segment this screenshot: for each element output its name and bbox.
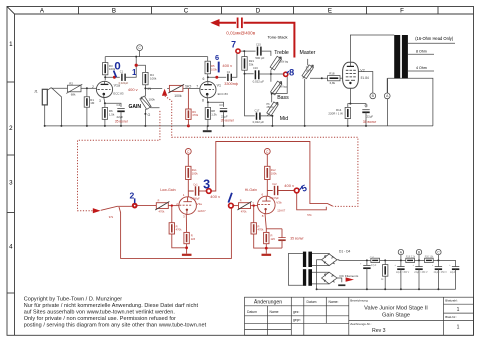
- svg-text:25k lin: 25k lin: [267, 106, 275, 109]
- capacitor red 0,01uF: [237, 18, 243, 29]
- svg-text:V3a: V3a: [197, 202, 203, 206]
- svg-text:3: 3: [9, 180, 13, 187]
- wire R2 to V1a grid: [81, 87, 96, 89]
- svg-text:3: 3: [183, 214, 185, 218]
- svg-text:1M: 1M: [90, 101, 95, 105]
- wire C2 to node 7: [231, 54, 237, 78]
- capacitor Cx2: [275, 186, 278, 195]
- wire node2 to grid resistor: [137, 205, 156, 207]
- svg-text:Only for private / non commerc: Only for private / non commercial use. P…: [24, 316, 176, 322]
- wires transformer to bridges: [312, 253, 329, 284]
- svg-text:Blattzahl:: Blattzahl:: [445, 299, 458, 303]
- svg-text:2: 2: [9, 125, 13, 132]
- svg-text:G: G: [148, 113, 151, 117]
- arrow at SlO tap: [162, 89, 167, 96]
- wire C15 to treble: [261, 51, 271, 56]
- bleeder resistor: [383, 260, 388, 289]
- wire tone stack left chain: [245, 74, 255, 116]
- speaker jack box: [388, 78, 433, 126]
- filter capacitor C14: [452, 260, 459, 289]
- svg-text:6: 6: [262, 193, 264, 197]
- wire pot to bus: [144, 109, 146, 126]
- triode V1b: [200, 82, 216, 98]
- ground V3a: [182, 254, 192, 256]
- svg-text:Bass: Bass: [277, 95, 289, 101]
- wire master wiper to R18: [310, 77, 328, 79]
- svg-text:R: R: [240, 200, 242, 203]
- svg-text:0,022 µF: 0,022 µF: [253, 79, 265, 83]
- svg-text:R20 10k: R20 10k: [425, 256, 434, 258]
- svg-text:22µF / 450 V: 22µF / 450 V: [434, 272, 448, 274]
- wire Cx1 to node 3: [199, 190, 207, 192]
- psu labels: [339, 249, 440, 278]
- svg-text:A: A: [400, 250, 403, 254]
- svg-text:1k5: 1k5: [271, 237, 276, 241]
- wire bridge1 plus to C10 node: [337, 259, 371, 262]
- wire jack sleeve to bus: [44, 105, 46, 126]
- svg-text:gepr:: gepr:: [293, 318, 301, 322]
- wire R18 to V2 grid: [340, 77, 343, 79]
- svg-text:8: 8: [262, 214, 264, 218]
- svg-text:posting / serving this diagram: posting / serving this diagram from any …: [24, 323, 207, 329]
- node C supply: [137, 45, 143, 57]
- svg-text:0,01мк@400в: 0,01мк@400в: [226, 30, 255, 35]
- svg-text:22µF: 22µF: [450, 272, 456, 274]
- B+ rail wire: [105, 56, 208, 58]
- svg-text:1: 1: [183, 193, 185, 197]
- wire C1 to node 1: [125, 57, 145, 78]
- svg-text:R9: R9: [192, 110, 196, 114]
- output transformer core: [394, 35, 408, 78]
- wire V3b cathode: [265, 214, 266, 233]
- wire R3 leads / plate node: [105, 57, 120, 81]
- svg-text:D: D: [256, 7, 261, 14]
- svg-text:Rx2: Rx2: [271, 168, 276, 172]
- potentiometer P8 Bass: [270, 74, 281, 102]
- svg-text:Gain Stage: Gain Stage: [382, 312, 410, 318]
- svg-text:R18: R18: [329, 71, 335, 75]
- svg-text:(16-Ohm Head Only): (16-Ohm Head Only): [415, 36, 454, 41]
- dc filament arrow: [346, 277, 354, 281]
- svg-text:Cx2: Cx2: [272, 183, 277, 186]
- red junction dots: [113, 64, 268, 250]
- svg-text:35 вольт: 35 вольт: [363, 120, 377, 124]
- resistor R5: [205, 61, 210, 74]
- svg-text:6,8k: 6,8k: [330, 81, 336, 85]
- svg-text:1: 1: [9, 41, 13, 48]
- svg-text:2: 2: [92, 85, 94, 89]
- svg-text:B: B: [418, 250, 421, 254]
- red text labels: [109, 63, 377, 241]
- wire C17 to mid bottom and bus: [260, 116, 273, 126]
- svg-text:Low-Gain: Low-Gain: [160, 188, 175, 192]
- svg-text:R: R: [158, 200, 160, 203]
- node ring 8: [284, 72, 288, 76]
- capacitor C16: [255, 70, 258, 79]
- svg-text:Zeichnungs-Nr.:: Zeichnungs-Nr.:: [350, 322, 371, 326]
- red dotted path SlO to hi-gain out: [165, 96, 358, 206]
- resistor R8: [205, 108, 210, 120]
- svg-text:J1: J1: [34, 89, 38, 93]
- wire V2 cathode: [348, 88, 366, 107]
- svg-text:35 вольт: 35 вольт: [115, 119, 129, 123]
- resistor Rg1 470k slanted: [155, 202, 169, 211]
- svg-text:+: +: [360, 264, 362, 266]
- grid column letters: [40, 7, 404, 14]
- svg-text:100k: 100k: [211, 67, 217, 71]
- svg-text:1,3k: 1,3k: [211, 112, 217, 116]
- svg-text:47µF: 47µF: [371, 265, 377, 267]
- capacitor Ck2 bypass: [266, 229, 285, 248]
- svg-text:470k: 470k: [192, 113, 198, 117]
- svg-text:Tone-Stack: Tone-Stack: [268, 34, 288, 39]
- svg-text:C15: C15: [256, 43, 261, 47]
- capacitor C2: [228, 74, 231, 81]
- svg-text:+: +: [395, 265, 397, 267]
- svg-text:C17: C17: [255, 109, 260, 113]
- svg-text:1M log: 1M log: [279, 85, 287, 88]
- svg-text:68k: 68k: [71, 93, 76, 97]
- svg-text:Blatt-Nr.:: Blatt-Nr.:: [445, 315, 457, 319]
- svg-text:2: 2: [130, 191, 135, 201]
- svg-text:7: 7: [196, 84, 198, 88]
- svg-text:400 v: 400 v: [128, 87, 138, 92]
- filter capacitor C12: [415, 260, 422, 289]
- red dotted path gain wiper to switch: [78, 111, 160, 211]
- wire IN node to mod resistor: [145, 87, 169, 89]
- svg-text:gez:: gez:: [293, 310, 299, 314]
- triode V3b: [258, 196, 276, 214]
- psu ground bus: [317, 288, 456, 290]
- wire Rk2 to ground: [265, 244, 267, 254]
- wire node7 to tone stack: [239, 50, 255, 52]
- node ring 2: [133, 204, 137, 208]
- wire node4 to grid resistor: [233, 205, 238, 207]
- svg-text:C16: C16: [253, 66, 258, 70]
- resistor Rk1: [184, 232, 189, 243]
- svg-text:Datum: Datum: [247, 310, 257, 314]
- svg-text:400 v: 400 v: [284, 183, 294, 188]
- resistor R21: [242, 57, 247, 71]
- wire V1b cathode: [207, 98, 223, 108]
- svg-text:12AX7: 12AX7: [277, 208, 286, 212]
- capacitor C10: [363, 260, 370, 289]
- wire node5 output: [297, 193, 327, 210]
- svg-text:C: C: [187, 150, 190, 154]
- ground filament: [338, 284, 345, 286]
- svg-text:100k: 100k: [150, 77, 157, 81]
- svg-text:EL 84: EL 84: [361, 76, 369, 80]
- svg-text:C: C: [184, 7, 189, 14]
- capacitor C17: [257, 113, 260, 120]
- svg-text:auf Sites ausserhalb von www.t: auf Sites ausserhalb von www.tube-town.n…: [24, 310, 176, 316]
- svg-text:Cx1: Cx1: [193, 183, 198, 186]
- wire jack shunt contact: [51, 88, 61, 126]
- potentiometer GAIN: [140, 96, 160, 109]
- svg-text:ECC 83: ECC 83: [218, 92, 229, 96]
- power transformer primary wires: [288, 254, 303, 286]
- svg-text:1k: 1k: [381, 279, 384, 281]
- svg-text:Valve Junior Mod Stage II: Valve Junior Mod Stage II: [364, 306, 428, 312]
- svg-text:220R / 1 W: 220R / 1 W: [328, 112, 343, 116]
- svg-text:0,047µF: 0,047µF: [270, 197, 280, 200]
- svg-text:Master: Master: [300, 50, 316, 56]
- wire 400v feed stage2: [211, 142, 332, 207]
- capacitor Cx1: [196, 186, 199, 195]
- resistor R19: [371, 258, 380, 262]
- svg-text:470k: 470k: [258, 228, 264, 232]
- svg-text:1,5k: 1,5k: [109, 112, 115, 116]
- svg-text:Datum: Datum: [307, 300, 317, 304]
- svg-text:0,068µF: 0,068µF: [191, 197, 201, 200]
- svg-text:250k log: 250k log: [279, 61, 289, 64]
- wire V1a cathode: [104, 98, 121, 108]
- pentode V2: [343, 62, 359, 88]
- svg-text:100k: 100k: [149, 98, 156, 102]
- svg-text:Treble: Treble: [274, 50, 289, 56]
- svg-text:C4: C4: [117, 103, 121, 107]
- svg-text:Rev 3: Rev 3: [372, 328, 386, 334]
- resistor Rgl1 470k: [169, 206, 187, 248]
- wire R14 to bus: [347, 119, 349, 126]
- svg-text:Copyright by Tube-Town / D. Mu: Copyright by Tube-Town / D. Munzinger: [24, 297, 123, 303]
- svg-text:B: B: [112, 7, 116, 14]
- svg-text:V1: V1: [217, 83, 221, 87]
- svg-text:C10: C10: [370, 258, 375, 260]
- resistor R1: [84, 97, 89, 107]
- svg-text:Änderungen: Änderungen: [254, 299, 282, 306]
- node ring 7: [236, 49, 240, 53]
- svg-text:22µF: 22µF: [117, 115, 124, 119]
- svg-text:4: 4: [9, 244, 13, 251]
- svg-text:400 v: 400 v: [210, 194, 220, 199]
- svg-text:C: C: [437, 250, 440, 254]
- blue ink marks: [114, 39, 308, 200]
- svg-text:Hi-Gain: Hi-Gain: [245, 188, 257, 192]
- psu junction dots: [316, 259, 440, 290]
- svg-text:8: 8: [202, 98, 204, 102]
- svg-text:DC Filaments: DC Filaments: [340, 274, 359, 278]
- svg-text:F: F: [400, 7, 404, 14]
- svg-text:D1 - D4: D1 - D4: [339, 249, 351, 253]
- node ring 5: [294, 188, 299, 193]
- capacitor C1: [122, 74, 125, 81]
- thick red jumper wire top: [214, 23, 295, 58]
- svg-text:B: B: [372, 94, 375, 98]
- wire R8 to bus: [207, 119, 209, 126]
- svg-text:0,022µF: 0,022µF: [119, 81, 129, 85]
- svg-text:Mid: Mid: [280, 116, 288, 122]
- wire R6 to bus: [104, 119, 106, 126]
- rectifier B+ bridge D1-D4: [322, 254, 338, 266]
- svg-text:8 Ohm: 8 Ohm: [416, 49, 427, 53]
- wire Cx2 to node 5: [278, 190, 294, 192]
- svg-text:V2: V2: [360, 69, 364, 73]
- svg-text:4 Ohm: 4 Ohm: [416, 66, 427, 70]
- resistor Rg2 470k slanted: [237, 202, 251, 211]
- wire switch lever: [101, 206, 133, 210]
- switch arrow: [93, 208, 101, 213]
- svg-text:1M A: 1M A: [306, 69, 312, 72]
- svg-text:3300пф: 3300пф: [224, 82, 238, 86]
- wire C3 to bus: [223, 111, 225, 126]
- svg-text:22µF / 450 V: 22µF / 450 V: [396, 272, 410, 274]
- wire C5 to bus: [365, 112, 367, 126]
- resistor Rx2: [265, 166, 270, 179]
- resistor R14: [345, 107, 350, 118]
- svg-text:12AX7: 12AX7: [198, 209, 207, 213]
- filter capacitor C13: [435, 260, 442, 289]
- node A psu: [398, 249, 403, 260]
- svg-text:22µF / 450 V: 22µF / 450 V: [414, 272, 428, 274]
- wire Rk1 to ground: [186, 244, 188, 254]
- resistor Rx1: [186, 166, 191, 179]
- svg-text:Bezeichnung: Bezeichnung: [350, 299, 368, 303]
- resistor R18: [328, 76, 340, 81]
- svg-text:470k: 470k: [159, 210, 165, 214]
- svg-text:57k: 57k: [307, 213, 312, 217]
- svg-text:7: 7: [231, 39, 236, 49]
- component labels stage 1: [34, 43, 389, 125]
- svg-text:A: A: [40, 7, 45, 14]
- filter capacitor C11: [397, 260, 404, 289]
- resistor R20: [406, 258, 415, 262]
- svg-text:500 pF: 500 pF: [255, 56, 264, 60]
- copyright text block: [24, 297, 207, 329]
- resistor R6: [102, 108, 107, 120]
- wire to V3b grid: [251, 205, 258, 207]
- wire V2 plate to transformer: [350, 35, 394, 62]
- node C psu: [436, 249, 441, 260]
- capacitor C3: [220, 109, 227, 112]
- potentiometer P5 Treble: [270, 56, 281, 70]
- svg-text:Nur für private / nicht kommer: Nur für private / nicht kommerzielle Anw…: [24, 303, 199, 309]
- wire R21 leads: [244, 51, 246, 74]
- svg-text:400 v: 400 v: [222, 63, 232, 68]
- svg-text:+: +: [432, 265, 434, 267]
- wire filament dc out: [337, 278, 342, 282]
- input jack J1: [42, 88, 51, 105]
- resistor R4: [143, 72, 148, 84]
- svg-text:6: 6: [215, 53, 219, 62]
- svg-text:35 вольт: 35 вольт: [290, 237, 304, 241]
- capacitor C4: [117, 109, 124, 112]
- svg-text:3: 3: [203, 177, 210, 191]
- ground V1: [203, 126, 212, 132]
- wire Rx1 to V3a plate: [188, 180, 193, 197]
- resistor R22: [425, 258, 434, 262]
- triode V1a: [96, 81, 112, 97]
- resistor R3: [103, 63, 108, 75]
- wire R5 / V1b plate node: [208, 57, 227, 82]
- wire V3a cathode: [185, 214, 187, 232]
- potentiometer P6 Mid: [267, 102, 278, 116]
- svg-text:C3: C3: [219, 103, 223, 107]
- wire SlO node to V1b grid: [183, 87, 199, 89]
- svg-text:Name:: Name:: [329, 300, 339, 304]
- svg-text:33k: 33k: [249, 63, 254, 67]
- svg-text:C: C: [266, 150, 269, 154]
- svg-text:470k: 470k: [241, 210, 247, 214]
- junction dots: [44, 50, 367, 127]
- svg-text:6: 6: [203, 77, 205, 81]
- ground bus wire: [45, 125, 433, 127]
- node B: [358, 72, 375, 99]
- svg-text:R19 2,2k: R19 2,2k: [406, 256, 416, 258]
- node C2b supply: [264, 149, 270, 167]
- wire jack tip to R2: [51, 87, 67, 89]
- grid row numbers: [9, 41, 13, 251]
- wire master bottom to bus: [304, 79, 306, 126]
- node C2a supply: [185, 149, 191, 167]
- svg-text:C2: C2: [227, 71, 231, 74]
- rectifier filament bridge: [322, 272, 338, 284]
- svg-text:ECC 83: ECC 83: [113, 92, 124, 96]
- potentiometer P7 Master: [302, 59, 313, 79]
- wire slope node to C16: [245, 73, 254, 75]
- red jumper arrowhead: [210, 19, 219, 27]
- svg-text:100k: 100k: [192, 172, 198, 176]
- node B psu: [416, 249, 421, 260]
- wire Rx2 to V3b plate: [267, 180, 272, 197]
- resistor Rmod 100k horizontal: [169, 85, 183, 91]
- svg-text:3: 3: [99, 99, 101, 103]
- svg-text:1: 1: [457, 325, 460, 331]
- svg-text:100k: 100k: [271, 172, 277, 176]
- svg-text:22µF: 22µF: [367, 114, 374, 118]
- svg-text:R2: R2: [69, 81, 73, 85]
- svg-text:1k5: 1k5: [191, 237, 196, 241]
- wire C16 to treble bottom / node 8: [259, 71, 287, 95]
- svg-text:+: +: [413, 265, 415, 267]
- svg-text:0: 0: [114, 61, 120, 73]
- title block: [245, 297, 474, 335]
- svg-text:E: E: [328, 7, 332, 14]
- output transformer taps: [408, 43, 455, 71]
- svg-text:V3b: V3b: [276, 200, 282, 204]
- capacitor C5: [362, 110, 369, 113]
- wire to V3a grid: [168, 205, 179, 207]
- node A: [384, 78, 390, 99]
- svg-text:GAIN: GAIN: [129, 104, 142, 110]
- node ring 3: [207, 189, 212, 194]
- triode V3a: [179, 197, 197, 215]
- svg-text:1: 1: [132, 68, 137, 77]
- svg-text:Name: Name: [270, 310, 279, 314]
- svg-text:35 вольт: 35 вольт: [221, 118, 235, 122]
- resistor R2: [66, 84, 82, 93]
- wire C4 to bus: [120, 111, 122, 126]
- svg-text:SlO: SlO: [185, 85, 191, 89]
- svg-text:8: 8: [289, 66, 294, 77]
- svg-text:470k: 470k: [176, 228, 182, 232]
- ground V3b: [262, 254, 272, 256]
- svg-text:1: 1: [457, 307, 460, 313]
- wire switch return loop: [119, 207, 231, 258]
- svg-text:100k: 100k: [174, 94, 182, 98]
- wire R4 to pot: [144, 85, 146, 97]
- svg-text:IN: IN: [148, 87, 152, 91]
- resistor Rgl2 470k: [251, 206, 282, 249]
- resistor Rk2: [264, 232, 269, 243]
- svg-text:Rx1: Rx1: [192, 168, 197, 172]
- node ring 4: [229, 203, 234, 208]
- resistor R9 470k red vertical: [168, 84, 191, 126]
- supply rail: [380, 259, 456, 261]
- svg-text:0,022 µF: 0,022 µF: [253, 120, 265, 124]
- wire R1 leads: [86, 88, 88, 126]
- power transformer core: [303, 252, 312, 286]
